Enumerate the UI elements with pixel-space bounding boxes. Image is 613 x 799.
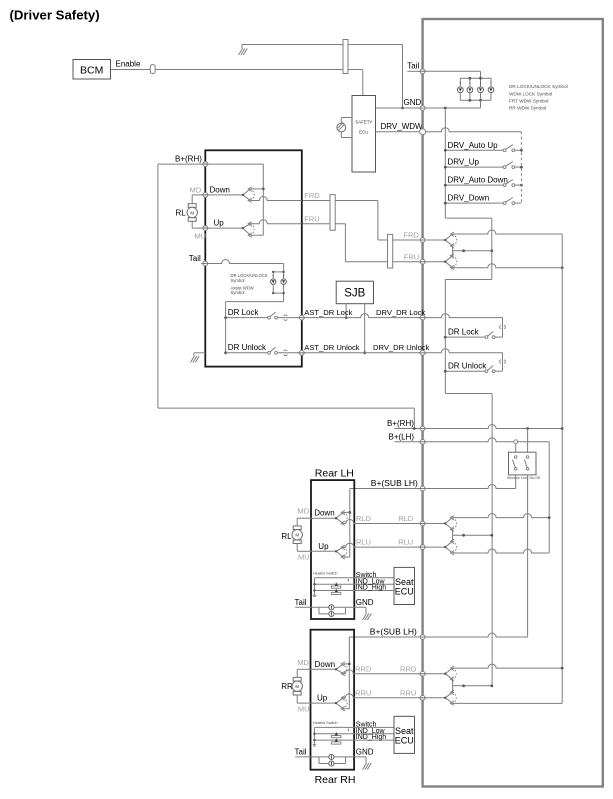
svg-text:RLU: RLU bbox=[398, 538, 413, 547]
motor M2 rear-left window bbox=[292, 526, 302, 544]
pin AST_DR Lock front bbox=[298, 315, 306, 320]
pin B+(SUB LH) rear-left bbox=[419, 486, 427, 491]
label Up front bbox=[214, 218, 225, 227]
node rear-left bus at Down bbox=[343, 511, 351, 514]
pin DRV_DR Lock bbox=[419, 315, 427, 320]
pin RLU bbox=[419, 545, 427, 550]
node lamp block junctions front bbox=[272, 271, 285, 295]
pin FRD bbox=[419, 238, 427, 243]
svg-text:(Driver Safety): (Driver Safety) bbox=[10, 7, 100, 22]
svg-text:Tail: Tail bbox=[295, 748, 307, 757]
wire RLD pin to driver bbox=[425, 523, 445, 525]
op-amp U2 Safety ECU bbox=[352, 96, 376, 173]
wire lamp bottom rail bbox=[460, 99, 491, 101]
svg-text:GND: GND bbox=[356, 598, 374, 607]
svg-text:ECU: ECU bbox=[395, 735, 414, 745]
svg-text:B+(SUB LH): B+(SUB LH) bbox=[370, 627, 417, 637]
label RL motor rear bbox=[281, 532, 292, 541]
wire Tail to lamp rail bbox=[423, 71, 481, 78]
label MD rear-right bbox=[297, 658, 309, 667]
svg-text:GND: GND bbox=[404, 98, 422, 107]
svg-text:Tail: Tail bbox=[189, 254, 201, 263]
node unlock bus junction bbox=[444, 370, 447, 373]
lamps L1-L4 indicator bulbs bbox=[457, 78, 494, 100]
wire GND out bbox=[346, 757, 367, 763]
wire MU rear-right to motor bbox=[297, 695, 310, 703]
svg-text:MU: MU bbox=[195, 232, 207, 241]
svg-text:MU: MU bbox=[298, 553, 310, 562]
connector C4 inline bbox=[388, 234, 393, 268]
wire FRU pin to driver bbox=[425, 261, 445, 263]
svg-text:B+(RH): B+(RH) bbox=[387, 419, 414, 428]
transistor driver Up rear-left bbox=[335, 545, 347, 559]
wire bus A elbow to bus B bbox=[445, 218, 492, 279]
svg-text:DRV_Auto Up: DRV_Auto Up bbox=[448, 141, 499, 150]
label B+(RH) front bbox=[175, 154, 202, 163]
wire ind-low row bbox=[314, 733, 394, 735]
transistor driver Up rear-right bbox=[335, 696, 347, 711]
svg-text:Seat: Seat bbox=[395, 726, 414, 736]
wire Down front bbox=[205, 194, 243, 196]
svg-text:Enable: Enable bbox=[116, 59, 141, 68]
lamp L5 front bbox=[271, 275, 276, 285]
label FRD bbox=[304, 191, 320, 200]
wire ind-low row bbox=[314, 583, 394, 585]
transistor driver FRU bbox=[444, 254, 457, 270]
wire MD rear-left to motor bbox=[297, 518, 311, 526]
svg-text:M: M bbox=[190, 210, 194, 215]
label GND rear-right bbox=[356, 748, 374, 757]
switch DRV_Up bbox=[444, 158, 522, 169]
label MU rear-left bbox=[298, 553, 310, 562]
lamp L6 front bbox=[281, 275, 286, 285]
wire Down rear-left bbox=[311, 517, 336, 519]
pin RLD bbox=[419, 521, 427, 526]
svg-text:RR WDW Symbol: RR WDW Symbol bbox=[509, 106, 546, 111]
label Rear LH title bbox=[315, 467, 354, 479]
label Tail rear-right bbox=[295, 748, 307, 757]
switch DRV_Auto Up bbox=[444, 141, 522, 152]
svg-text:B+(LH): B+(LH) bbox=[389, 432, 415, 441]
svg-text:FRU: FRU bbox=[404, 252, 419, 261]
wire RR top to B+ vertical bbox=[453, 664, 563, 668]
node B+(LH) tap bbox=[514, 440, 518, 444]
wire rear-right bus to Up driver bbox=[343, 708, 349, 710]
pin B+(LH) bbox=[419, 439, 427, 444]
rear-left door module box bbox=[311, 480, 354, 619]
node front lock bus junctions bbox=[224, 316, 227, 354]
wire FRD front box to module bbox=[302, 201, 423, 241]
label DRV_DR Unlock bbox=[373, 343, 430, 352]
rear-right door module box bbox=[311, 630, 355, 770]
label MD rear-left bbox=[298, 507, 310, 516]
pin GND bbox=[419, 106, 427, 111]
svg-text:Window Lock Sw Off: Window Lock Sw Off bbox=[507, 476, 540, 480]
pin Tail front bbox=[201, 261, 209, 266]
wire RRU pin to driver bbox=[425, 697, 445, 699]
svg-text:Tail: Tail bbox=[407, 61, 419, 70]
transistor driver Down rear-left bbox=[335, 510, 347, 525]
wire ind-high row bbox=[314, 590, 394, 592]
node RR top junction bbox=[561, 667, 564, 670]
wire Enable to Safety ECU bbox=[155, 70, 363, 96]
label IND_High rear-right bbox=[356, 734, 386, 741]
svg-text:Down: Down bbox=[314, 509, 334, 518]
wire rear-left bus to Up driver bbox=[343, 556, 349, 558]
label B+(RH) bbox=[387, 419, 414, 428]
svg-text:Up: Up bbox=[317, 694, 328, 703]
svg-text:Down: Down bbox=[315, 660, 335, 669]
wire FRU out of driver bbox=[250, 220, 301, 224]
svg-text:Up: Up bbox=[318, 542, 329, 551]
svg-text:Symbol: Symbol bbox=[231, 290, 245, 295]
label DRV_DR Lock bbox=[376, 308, 425, 317]
svg-text:ECU: ECU bbox=[359, 130, 368, 135]
label RRD right bbox=[400, 664, 417, 673]
label lamp symbol list bbox=[509, 84, 568, 110]
wire FR bottom to B+ vertical bbox=[453, 264, 563, 268]
label FRD right bbox=[404, 231, 420, 240]
wire MD rear-right to motor bbox=[297, 669, 310, 677]
wire lamp top rail bbox=[460, 77, 491, 79]
wire RRD out bbox=[343, 670, 422, 674]
wire front lock bus bbox=[226, 302, 284, 353]
wire DRV_DR Unlock inside bbox=[425, 349, 505, 371]
label MU front bbox=[195, 232, 207, 241]
switch window-lock contacts bbox=[513, 456, 529, 470]
svg-text:DR LOCK/UNLOCK Symbol: DR LOCK/UNLOCK Symbol bbox=[509, 84, 568, 89]
svg-text:Heated Switch: Heated Switch bbox=[313, 721, 337, 725]
svg-text:BCM: BCM bbox=[80, 64, 103, 76]
wire FR middle common bbox=[453, 246, 492, 256]
transistor driver RLU bbox=[444, 539, 457, 555]
svg-text:FRD: FRD bbox=[304, 191, 320, 200]
wire switch block left bus bbox=[313, 727, 315, 744]
svg-text:M: M bbox=[295, 533, 299, 538]
node front bus at Down driver bbox=[250, 188, 264, 191]
svg-text:DRV_Up: DRV_Up bbox=[448, 158, 480, 167]
motor M1 front left window bbox=[187, 204, 197, 222]
svg-text:FRU: FRU bbox=[304, 214, 319, 223]
svg-text:Symbol: Symbol bbox=[231, 278, 245, 283]
label IND_Low rear-left bbox=[356, 578, 386, 585]
label DR Unlock front bbox=[228, 343, 267, 352]
ground G2 front bbox=[190, 356, 199, 363]
svg-text:DRV_Auto Down: DRV_Auto Down bbox=[448, 176, 508, 185]
label B+(SUB LH) rear-left bbox=[371, 478, 418, 488]
pin RRD bbox=[419, 671, 427, 676]
svg-text:RL: RL bbox=[176, 208, 187, 217]
wire FRD out of driver bbox=[250, 197, 301, 201]
motor M3 rear-right window bbox=[292, 677, 302, 695]
svg-text:DRV_Down: DRV_Down bbox=[448, 194, 490, 203]
transistor driver RRD bbox=[444, 666, 456, 681]
wire window-lock outputs bbox=[516, 475, 528, 637]
wire RL bottom return bbox=[453, 549, 550, 553]
wire B+(SUB LH) rear-left row bbox=[350, 485, 516, 489]
wire tail lamp loop bbox=[295, 607, 345, 614]
wire RLD out bbox=[343, 520, 422, 524]
pin Down front bbox=[201, 193, 209, 198]
title (Driver Safety) bbox=[10, 7, 100, 22]
svg-text:SJB: SJB bbox=[344, 288, 365, 300]
label window lock caption bbox=[507, 476, 540, 480]
wire B+(RH) feed vertical bbox=[561, 234, 563, 702]
wire switch row bbox=[314, 727, 394, 731]
label DR Lock front bbox=[228, 308, 260, 317]
lamp block front rails bbox=[273, 272, 283, 293]
wire GND Safety ECU to SJB pin bbox=[376, 98, 423, 108]
svg-text:FRT WDW Symbol: FRT WDW Symbol bbox=[509, 99, 548, 104]
svg-text:MD: MD bbox=[298, 507, 310, 516]
svg-text:Down: Down bbox=[210, 185, 230, 194]
svg-text:DRV_DR Lock: DRV_DR Lock bbox=[376, 308, 425, 317]
label IND_High rear-left bbox=[356, 585, 386, 592]
wire window-lock feeds bbox=[516, 429, 528, 453]
svg-text:RLD: RLD bbox=[398, 514, 414, 523]
svg-text:ECU: ECU bbox=[395, 587, 414, 597]
transistor driver Down rear-right bbox=[335, 662, 347, 676]
svg-text:RRU: RRU bbox=[355, 688, 371, 697]
connector C2 on Enable wire bbox=[150, 65, 155, 74]
node rear-right bus at Down bbox=[343, 663, 350, 666]
svg-text:RRU: RRU bbox=[400, 688, 416, 697]
wire MD to motor bbox=[192, 195, 205, 204]
svg-text:Heated Switch: Heated Switch bbox=[313, 572, 337, 576]
label MD front bbox=[190, 185, 202, 194]
label RLD right bbox=[398, 514, 414, 523]
BCM U1 bbox=[73, 60, 111, 80]
wire MU rear-left to motor bbox=[297, 544, 311, 552]
transistor driver Down front bbox=[242, 187, 254, 203]
svg-text:Up: Up bbox=[214, 218, 225, 227]
svg-text:DR Lock: DR Lock bbox=[448, 327, 480, 336]
svg-text:Rear RH: Rear RH bbox=[315, 774, 356, 786]
label B+(LH) bbox=[389, 432, 415, 441]
label Switch rear-left bbox=[356, 572, 377, 579]
label Switch rear-right bbox=[356, 722, 377, 729]
svg-text:GND: GND bbox=[356, 748, 374, 757]
svg-text:MD: MD bbox=[190, 185, 202, 194]
svg-text:RRD: RRD bbox=[355, 664, 372, 673]
wire tail lamp loop bbox=[295, 757, 345, 764]
pin RRU bbox=[419, 695, 427, 700]
wire Tail inside front box bbox=[205, 260, 283, 302]
wire Down rear-right bbox=[311, 668, 337, 670]
pin FRU bbox=[419, 259, 427, 264]
pin DRV_DR Unlock bbox=[419, 350, 427, 355]
wire Tail stub bbox=[407, 70, 422, 72]
wire SJB leg unlock bbox=[363, 304, 366, 354]
wire DRV_DR Lock inside bbox=[425, 314, 505, 338]
label Tail front bbox=[189, 254, 201, 263]
label heated switch block bbox=[313, 721, 337, 725]
wire Up front bbox=[205, 227, 243, 229]
junction-box SJB bbox=[336, 281, 373, 304]
svg-text:M: M bbox=[295, 684, 299, 689]
svg-text:MU: MU bbox=[298, 705, 310, 714]
label AST_DR Unlock bbox=[304, 343, 359, 352]
pin DRV_WDW bbox=[420, 129, 426, 135]
label heated switch block bbox=[313, 572, 337, 576]
switch-box window lock bbox=[509, 452, 537, 475]
label RRU right bbox=[400, 688, 416, 697]
lamps tail indicators bbox=[329, 605, 334, 617]
svg-text:B+(RH): B+(RH) bbox=[175, 154, 202, 163]
diode indicator LEDs bbox=[331, 732, 341, 744]
ground G tail block bbox=[363, 763, 372, 770]
wire bus C elbow to bus D bbox=[445, 394, 492, 686]
node B+(RH) junctions bbox=[413, 427, 564, 430]
wire lamp rail to GND row bbox=[423, 100, 481, 108]
driver-module main box bbox=[423, 19, 603, 787]
wire RRD pin to driver bbox=[425, 673, 445, 675]
wire FRD pin to driver bbox=[425, 239, 445, 241]
pin B+(SUB LH) rear-right bbox=[419, 635, 427, 640]
transistor driver Up front bbox=[242, 222, 254, 238]
svg-text:DR Unlock: DR Unlock bbox=[228, 343, 267, 352]
wire RLU out bbox=[343, 543, 422, 547]
svg-text:DR Lock: DR Lock bbox=[228, 308, 260, 317]
svg-text:RR: RR bbox=[281, 682, 293, 691]
svg-text:WDW LOCK Symbol: WDW LOCK Symbol bbox=[509, 91, 552, 96]
diode indicator LEDs bbox=[331, 582, 341, 594]
label RL motor front bbox=[176, 208, 187, 217]
wire SJB leg lock bbox=[345, 304, 348, 319]
svg-text:DRV_WDW: DRV_WDW bbox=[381, 122, 424, 131]
label DR Unlock module bbox=[448, 362, 487, 371]
wire RL top to B+(LH) vertical bbox=[453, 514, 550, 518]
svg-text:FRD: FRD bbox=[404, 231, 420, 240]
ecu-box Seat ECU rear-right bbox=[394, 716, 415, 753]
label AST_DR Lock bbox=[304, 308, 352, 317]
switch DR Lock module bbox=[445, 332, 495, 339]
switch DR Lock front bbox=[226, 312, 302, 320]
svg-text:AST_DR Unlock: AST_DR Unlock bbox=[304, 343, 359, 352]
svg-text:Tail: Tail bbox=[295, 598, 307, 607]
label FRU bbox=[304, 214, 319, 223]
node FR middle junction bbox=[490, 249, 493, 252]
wire GND out bbox=[346, 607, 367, 613]
svg-text:RLD: RLD bbox=[356, 514, 372, 523]
wire DRV_WDW bbox=[376, 122, 424, 132]
label Up rear-left bbox=[318, 542, 329, 551]
svg-text:DR Unlock: DR Unlock bbox=[448, 362, 487, 371]
node lock bus junction bbox=[444, 336, 447, 339]
wire DR lock net bbox=[302, 314, 423, 318]
wire DR Unlock to ground bbox=[194, 353, 205, 356]
wire B+(SUB LH) into rear-right bus bbox=[348, 637, 350, 709]
label RLU right bbox=[398, 538, 413, 547]
connector C1 inline bbox=[343, 40, 348, 74]
sensor D1 at Safety ECU bbox=[337, 118, 352, 138]
ground switch block tiny bbox=[313, 595, 317, 596]
wire ground to GND node bbox=[242, 45, 403, 109]
svg-text:RLU: RLU bbox=[356, 538, 371, 547]
node switch output junctions bbox=[520, 149, 523, 187]
wire Up rear-left bbox=[311, 550, 336, 552]
transistor driver FRD bbox=[444, 232, 457, 248]
node RL top junction bbox=[548, 516, 551, 519]
switch DR Unlock module bbox=[445, 366, 495, 373]
label Rear RH title bbox=[315, 774, 356, 786]
svg-text:Seat: Seat bbox=[395, 577, 414, 587]
wire B+(LH) row bbox=[394, 438, 549, 553]
wire Enable BCM to connector bbox=[111, 69, 151, 71]
pin B+(RH) front bbox=[201, 162, 209, 167]
label Down rear-left bbox=[314, 509, 334, 518]
pin Tail bbox=[419, 69, 427, 74]
wire RR middle common bbox=[453, 679, 494, 692]
wire front bus to Up driver bbox=[250, 234, 263, 236]
svg-text:IND_High: IND_High bbox=[356, 734, 386, 741]
wire switch block left bus bbox=[313, 578, 315, 595]
node FR bottom junction bbox=[561, 266, 564, 269]
wire RRU out bbox=[343, 694, 422, 698]
svg-text:B+(SUB LH): B+(SUB LH) bbox=[371, 478, 418, 488]
wire RLU pin to driver bbox=[425, 546, 445, 548]
switch DR Unlock front bbox=[226, 347, 302, 355]
label Tail bbox=[407, 61, 419, 70]
svg-text:RRD: RRD bbox=[400, 664, 417, 673]
node GND junction bbox=[401, 107, 404, 110]
wire bus B elbow back to bus C bbox=[445, 280, 492, 394]
wire FR top to B+ vertical bbox=[453, 230, 563, 234]
label Down front bbox=[210, 185, 230, 194]
label RRD bbox=[355, 664, 372, 673]
label RLD bbox=[356, 514, 372, 523]
label FRU right bbox=[404, 252, 419, 261]
transistor driver RRU bbox=[444, 690, 456, 705]
wire B+(SUB LH) rear-right row bbox=[349, 633, 527, 637]
svg-text:MD: MD bbox=[297, 658, 309, 667]
wire bus A vertical bbox=[444, 108, 446, 218]
label RRU bbox=[355, 688, 371, 697]
node GND bus junction bbox=[444, 107, 447, 110]
wire B+(RH) front branch bbox=[158, 164, 414, 428]
wire Up rear-right bbox=[311, 702, 337, 704]
label DR Lock module bbox=[448, 327, 480, 336]
label Down rear-right bbox=[315, 660, 335, 669]
node lamp rail junctions bbox=[469, 77, 482, 102]
label Enable bbox=[116, 59, 141, 68]
wire MU to motor bbox=[192, 221, 205, 228]
connector C3 inline bbox=[330, 195, 335, 231]
wire FRU front box to module bbox=[302, 224, 423, 262]
switch DRV_Down bbox=[444, 194, 522, 205]
label front lamp symbols bbox=[231, 273, 268, 295]
label MU rear-right bbox=[298, 705, 310, 714]
wire DR unlock net bbox=[302, 352, 423, 354]
label Up rear-right bbox=[317, 694, 328, 703]
label RLU bbox=[356, 538, 371, 547]
wire RL middle common bbox=[453, 529, 494, 541]
wire RR bottom return bbox=[453, 702, 563, 703]
pin Up front bbox=[201, 226, 209, 231]
svg-text:AST_DR Lock: AST_DR Lock bbox=[304, 308, 352, 317]
svg-text:RL: RL bbox=[281, 532, 292, 541]
label IND_Low rear-right bbox=[356, 728, 386, 735]
wire B+(RH) row bbox=[394, 425, 562, 429]
transistor driver RLD bbox=[444, 516, 457, 532]
front-door module box bbox=[205, 150, 301, 366]
pin AST_DR Unlock front bbox=[298, 350, 306, 355]
ground G1 top bbox=[239, 45, 248, 56]
ecu-box Seat ECU rear-left bbox=[394, 567, 415, 604]
switch DRV_Auto Down bbox=[444, 176, 522, 187]
label B+(SUB LH) rear-right bbox=[370, 627, 417, 637]
svg-text:SAFETY: SAFETY bbox=[355, 120, 372, 125]
